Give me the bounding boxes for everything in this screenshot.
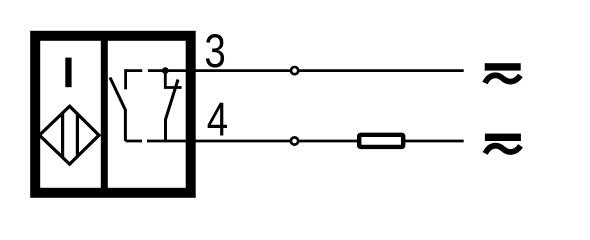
- switch frame dash bottom horizontal: [125, 140, 142, 143]
- svg-text:4: 4: [207, 94, 228, 146]
- AC supply symbol wire 4: [485, 134, 521, 154]
- diamond inner line right: [76, 114, 79, 156]
- wire 4: [147, 140, 464, 143]
- terminal circle wire 4: [291, 137, 298, 144]
- switch frame dash top vertical: [124, 69, 127, 89]
- sensor box outline: [35, 36, 191, 193]
- switch frame dash top horizontal: [126, 69, 143, 72]
- switch contact lever right: [166, 80, 179, 142]
- cell divider: [101, 31, 108, 197]
- svg-text:3: 3: [204, 26, 225, 78]
- sensor diamond: [39, 106, 99, 164]
- wire 3: [148, 69, 464, 72]
- diamond inner line left: [61, 113, 64, 158]
- terminal circle wire 3: [291, 67, 298, 74]
- junction dot: [162, 67, 169, 74]
- inductive sensing bar I: [65, 58, 71, 88]
- switch fixed contact right: [165, 71, 181, 88]
- AC supply symbol wire 3: [485, 63, 521, 83]
- load resistor: [359, 135, 403, 147]
- switch contact lever left: [110, 78, 125, 142]
